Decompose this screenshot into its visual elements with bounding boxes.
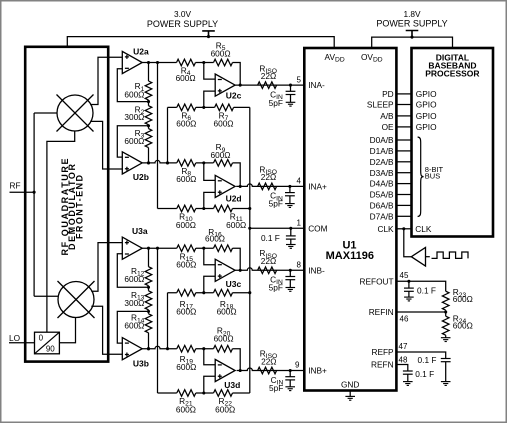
svg-text:0.1 F: 0.1 F xyxy=(261,233,280,243)
resistor R10 xyxy=(177,205,196,212)
junction U3c output xyxy=(239,269,242,272)
svg-text:OE: OE xyxy=(382,122,394,132)
junction CIN node pin8 xyxy=(289,269,292,272)
wire pin D7A/B xyxy=(396,215,411,217)
svg-text:600Ω: 600Ω xyxy=(213,119,233,129)
wire REFP cap to ground xyxy=(445,362,447,382)
junction R18-COM xyxy=(248,291,251,294)
capacitor CIN (INB+) xyxy=(285,377,295,380)
svg-text:INA-: INA- xyxy=(308,80,325,90)
svg-text:600Ω: 600Ω xyxy=(211,48,231,58)
svg-text:GPIO: GPIO xyxy=(416,89,437,99)
svg-text:CLK: CLK xyxy=(415,224,432,234)
svg-text:GPIO: GPIO xyxy=(416,100,437,110)
resistor R20 xyxy=(214,345,233,352)
op-amp U3c xyxy=(215,259,241,289)
node 3.0V rail xyxy=(207,35,210,38)
1.8V power supply terminal xyxy=(406,31,419,38)
svg-text:600Ω: 600Ω xyxy=(453,320,473,330)
ADC U1 MAX1196 block xyxy=(304,48,396,391)
wire LO 0-deg to mixer1 xyxy=(47,131,75,332)
junction U2d inverting node xyxy=(202,161,205,164)
wire U2b feedback xyxy=(117,126,148,157)
wire CIN pin5 xyxy=(290,85,292,102)
svg-text:U3a: U3a xyxy=(132,226,148,236)
svg-text:600Ω: 600Ω xyxy=(176,362,196,372)
resistor RISO (INB+) xyxy=(258,367,277,374)
resistor R4 xyxy=(177,59,196,66)
ground CIN pin4 xyxy=(285,204,295,208)
svg-text:A/B: A/B xyxy=(380,111,394,121)
junction RF node xyxy=(33,191,36,194)
junction U3a output / chain xyxy=(147,247,150,250)
wire pin D2A/B xyxy=(396,161,411,163)
svg-text:600Ω: 600Ω xyxy=(176,174,196,184)
svg-text:600Ω: 600Ω xyxy=(217,307,237,317)
capacitor CIN (INB-) xyxy=(285,277,295,280)
wire U2a output xyxy=(142,62,176,64)
wire 3.0V rail xyxy=(67,37,334,48)
svg-text:600Ω: 600Ω xyxy=(215,404,235,414)
svg-text:0.1 F: 0.1 F xyxy=(417,285,436,295)
resistor R7 xyxy=(215,104,234,111)
svg-text:600Ω: 600Ω xyxy=(210,150,230,160)
wire U3a feedback xyxy=(117,254,148,287)
resistor R24 xyxy=(442,316,449,335)
junction U3b output / chain xyxy=(147,347,150,350)
wire U3b output (hop) xyxy=(142,346,177,349)
svg-text:D1A/B: D1A/B xyxy=(370,146,394,156)
svg-text:600Ω: 600Ω xyxy=(176,73,196,83)
wire to U3c inverting input xyxy=(204,248,215,265)
svg-text:D0A/B: D0A/B xyxy=(370,135,394,145)
wire R12-R14 chain xyxy=(148,248,150,349)
svg-text:U2b: U2b xyxy=(133,172,149,182)
svg-text:600Ω: 600Ω xyxy=(176,307,196,317)
wire pin A/B xyxy=(396,115,411,117)
svg-text:U2d: U2d xyxy=(226,194,242,204)
wire CIN pin9 xyxy=(289,371,291,387)
junction R11-COM xyxy=(248,207,251,210)
wire U3a output to R21 xyxy=(157,248,159,393)
wire mixer2 to U3a+ xyxy=(91,243,122,292)
svg-text:600Ω: 600Ω xyxy=(124,136,144,146)
svg-text:600Ω: 600Ω xyxy=(124,90,144,100)
junction U2c non-inverting node xyxy=(202,106,205,109)
junction U2a output tap xyxy=(156,61,159,64)
svg-text:POWER SUPPLY: POWER SUPPLY xyxy=(147,19,218,29)
wire pin PD xyxy=(396,93,411,95)
ground CIN pin5 xyxy=(286,102,296,106)
wire mixer2 to U3b+ xyxy=(91,306,122,354)
wire RF vertical bus xyxy=(33,113,35,296)
resistor R14 xyxy=(145,314,152,333)
svg-text:600Ω: 600Ω xyxy=(214,333,234,343)
clock waveform symbol xyxy=(432,252,469,258)
wire pin SLEEP xyxy=(396,104,411,106)
resistor R9 xyxy=(214,160,233,167)
svg-text:90: 90 xyxy=(46,345,55,354)
junction R12-R13 xyxy=(147,286,150,289)
wire U3b feedback xyxy=(117,311,148,343)
resistor R23 xyxy=(442,291,449,310)
junction xyxy=(147,347,150,350)
svg-text:GPIO: GPIO xyxy=(416,122,437,132)
svg-text:1: 1 xyxy=(297,218,302,227)
svg-text:0.1 F: 0.1 F xyxy=(415,369,434,379)
wire LO input xyxy=(9,342,35,344)
junction REFIN node xyxy=(444,310,447,313)
ground REFP cap xyxy=(441,382,451,386)
resistor R12 xyxy=(145,267,152,286)
svg-text:600Ω: 600Ω xyxy=(205,234,225,244)
junction U3a output tap xyxy=(156,247,159,250)
svg-text:22Ω: 22Ω xyxy=(261,256,276,266)
wire REFP xyxy=(396,352,445,359)
svg-text:0: 0 xyxy=(39,334,44,343)
resistor R1 xyxy=(145,81,152,100)
junction U3d non-inverting node xyxy=(202,391,205,394)
svg-text:48: 48 xyxy=(399,355,408,364)
wire CIN pin4 xyxy=(289,186,291,203)
svg-text:600Ω: 600Ω xyxy=(124,321,144,331)
junction U2a output / chain xyxy=(147,61,150,64)
junction COM bus xyxy=(248,227,251,230)
capacitor 0.1F REFP xyxy=(441,359,451,362)
op-amp U2b xyxy=(122,152,149,182)
mixer (I-channel) xyxy=(57,95,94,132)
resistor R19 xyxy=(177,345,196,352)
wire to U3d inverting input xyxy=(204,349,215,365)
resistor R15 xyxy=(177,245,196,252)
wire REFIN xyxy=(396,311,445,313)
resistor R17 xyxy=(177,289,196,296)
ground CIN pin8 xyxy=(286,288,296,292)
op-amp U2c xyxy=(215,74,241,101)
wire COM to pin1 xyxy=(250,227,305,229)
wire LO 90-deg to mixer2 xyxy=(59,318,75,343)
resistor R22 xyxy=(214,390,233,397)
op-amp U3b xyxy=(122,338,149,369)
svg-text:PD: PD xyxy=(382,89,394,99)
svg-text:600Ω: 600Ω xyxy=(176,260,196,270)
wire pin D4A/B xyxy=(396,183,411,185)
wire REFOUT cap xyxy=(408,281,410,297)
wire R21-R22 row xyxy=(158,392,250,394)
wire REFN cap to ground xyxy=(407,374,409,381)
wire pin D5A/B xyxy=(396,194,411,196)
svg-text:8: 8 xyxy=(297,260,302,269)
wire to U2d non-inverting input xyxy=(204,192,215,208)
svg-text:22Ω: 22Ω xyxy=(261,172,276,182)
wire to U3d non-inverting input xyxy=(204,376,215,393)
svg-text:D6A/B: D6A/B xyxy=(370,201,394,211)
resistor R16 xyxy=(214,245,233,252)
op-amp U2a xyxy=(122,46,149,73)
wire clock source xyxy=(404,229,412,257)
svg-text:22Ω: 22Ω xyxy=(261,71,276,81)
wire REFOUT xyxy=(396,281,445,291)
svg-text:RF: RF xyxy=(10,181,21,191)
resistor R11 xyxy=(214,205,233,212)
wire R17-R18 row xyxy=(168,292,250,294)
svg-text:D2A/B: D2A/B xyxy=(370,157,394,167)
wire mixer1 to U2a+ xyxy=(90,57,122,104)
svg-text:U2a: U2a xyxy=(133,46,149,56)
resistor R2 xyxy=(145,106,152,125)
junction U3c non-inverting node xyxy=(202,291,205,294)
mixer (Q-channel) xyxy=(58,281,95,318)
wire R6-R7 row xyxy=(168,106,250,108)
junction CIN node pin5 xyxy=(289,84,292,87)
svg-text:4: 4 xyxy=(297,176,302,185)
wire COM cap xyxy=(290,228,292,244)
svg-text:U2c: U2c xyxy=(226,91,242,101)
RF quadrature demodulator front-end block xyxy=(25,47,108,362)
wire pin D1A/B xyxy=(396,150,411,152)
svg-text:SLEEP: SLEEP xyxy=(367,100,394,110)
wire pin OE xyxy=(396,126,411,128)
junction CLK xyxy=(402,227,405,230)
capacitor 0.1F COM xyxy=(286,236,296,239)
resistor R18 xyxy=(214,289,233,296)
junction xyxy=(147,161,150,164)
resistor R8 xyxy=(177,160,196,167)
svg-text:D4A/B: D4A/B xyxy=(370,179,394,189)
junction R2-R3 xyxy=(147,124,150,127)
wire pin D3A/B xyxy=(396,172,411,174)
svg-text:5: 5 xyxy=(297,75,302,84)
svg-text:U3d: U3d xyxy=(224,380,240,390)
wire R4-R5 xyxy=(196,62,214,64)
junction xyxy=(166,161,169,164)
svg-text:MAX1196: MAX1196 xyxy=(326,250,374,262)
svg-text:5pF: 5pF xyxy=(269,383,283,393)
junction U3c inverting node xyxy=(202,247,205,250)
svg-text:300Ω: 300Ω xyxy=(124,112,144,122)
junction U2d non-inverting node xyxy=(202,207,205,210)
wire R1-R3 chain xyxy=(148,63,150,163)
svg-text:3.0V: 3.0V xyxy=(174,9,192,19)
ground R24 xyxy=(441,338,451,342)
wire U2c output to INA- xyxy=(235,84,304,86)
wire pin CLK xyxy=(396,228,411,230)
wire R5 to U2c output xyxy=(233,63,241,86)
svg-text:5pF: 5pF xyxy=(269,98,283,108)
svg-text:600Ω: 600Ω xyxy=(176,404,196,414)
resistor R6 xyxy=(177,104,196,111)
svg-text:D7A/B: D7A/B xyxy=(370,211,394,221)
resistor RISO (INB-) xyxy=(258,267,277,274)
ground REFN cap xyxy=(403,382,413,386)
svg-text:5pF: 5pF xyxy=(269,282,283,292)
3.0V power supply terminal xyxy=(202,31,215,37)
svg-text:9: 9 xyxy=(295,361,300,370)
svg-text:INB+: INB+ xyxy=(308,366,327,376)
svg-text:46: 46 xyxy=(400,314,409,323)
wire U3c output to INB- (hop) xyxy=(235,268,304,271)
junction xyxy=(166,161,169,164)
clock buffer xyxy=(411,248,425,267)
wire RF to mixer2 xyxy=(34,295,58,297)
svg-text:600Ω: 600Ω xyxy=(124,274,144,284)
digital baseband processor block xyxy=(412,48,494,237)
svg-text:600Ω: 600Ω xyxy=(453,294,473,304)
wire U3a output xyxy=(142,247,177,249)
svg-text:300Ω: 300Ω xyxy=(124,298,144,308)
junction CIN node pin4 xyxy=(288,185,291,188)
junction COM cap node xyxy=(289,227,292,230)
resistor R21 xyxy=(177,390,196,397)
capacitor 0.1F REFOUT xyxy=(404,288,414,291)
svg-text:POWER SUPPLY: POWER SUPPLY xyxy=(376,18,447,28)
svg-text:0.1 F: 0.1 F xyxy=(418,355,437,365)
resistor RISO (INA+) xyxy=(258,183,277,190)
svg-text:22Ω: 22Ω xyxy=(261,356,276,366)
wire R17 to U3b output xyxy=(167,293,169,349)
op-amp U3a xyxy=(122,226,148,259)
node 1.8V rail xyxy=(410,36,413,39)
wire COM bus vertical xyxy=(249,107,251,393)
wire R6 to U2b output xyxy=(167,107,169,162)
resistor R5 xyxy=(214,59,233,66)
wire U2a output to R10 xyxy=(157,63,159,209)
svg-text:D3A/B: D3A/B xyxy=(370,168,394,178)
junction U2c output xyxy=(239,84,242,87)
svg-text:D5A/B: D5A/B xyxy=(370,190,394,200)
svg-text:REFOUT: REFOUT xyxy=(359,276,393,286)
wire REFN xyxy=(396,365,407,372)
junction U3d output xyxy=(239,369,242,372)
wire R15-R16 xyxy=(196,247,214,249)
op-amp U2d xyxy=(215,175,241,203)
wire R19-R20 xyxy=(196,348,214,350)
8-bit bus brace xyxy=(418,137,424,217)
wire U3d output to INB+ (hop) xyxy=(237,368,305,371)
resistor R13 xyxy=(145,291,152,310)
wire pin D6A/B xyxy=(396,204,411,206)
wire pin D0A/B xyxy=(396,139,411,141)
svg-text:600Ω: 600Ω xyxy=(176,220,196,230)
wire R10-R11 row xyxy=(158,208,250,210)
wire R23-R24 xyxy=(445,310,447,316)
capacitor CIN (INA-) xyxy=(286,91,296,94)
svg-text:FRONT-END: FRONT-END xyxy=(74,175,84,240)
svg-text:U3b: U3b xyxy=(133,359,149,369)
wire U2d output to INA+ (hop) xyxy=(236,184,304,187)
wire R16 to U3c output xyxy=(233,248,241,270)
wire GND pin xyxy=(349,391,351,397)
wire U2b output (hop) xyxy=(142,160,177,163)
wire R8-R9 xyxy=(196,162,214,164)
svg-text:GND: GND xyxy=(341,379,359,389)
wire to U2d inverting input xyxy=(204,163,215,181)
svg-text:U3c: U3c xyxy=(226,279,242,289)
op-amp U3d xyxy=(215,359,240,390)
junction U2c inverting node xyxy=(202,61,205,64)
svg-text:INA+: INA+ xyxy=(308,181,327,191)
wire 1.8V rail xyxy=(372,37,453,48)
0/90 phase shifter xyxy=(35,332,60,354)
junction U2d output xyxy=(239,185,242,188)
svg-text:INB-: INB- xyxy=(308,265,325,275)
resistor R3 xyxy=(145,129,152,148)
junction U2b output / chain xyxy=(147,161,150,164)
capacitor 0.1F REFN xyxy=(403,371,413,374)
junction R1-R2 xyxy=(147,100,150,103)
wire RF input xyxy=(10,191,35,193)
ground REFOUT cap xyxy=(404,297,414,301)
svg-text:CLK: CLK xyxy=(377,224,394,234)
svg-text:LO: LO xyxy=(9,333,21,343)
wire mixer1 to U2b+ xyxy=(90,121,122,169)
svg-text:600Ω: 600Ω xyxy=(226,220,246,230)
svg-text:5pF: 5pF xyxy=(269,198,283,208)
wire R24 to ground xyxy=(445,335,447,338)
wire CIN pin8 xyxy=(289,270,291,287)
junction xyxy=(166,347,169,350)
ground CIN pin9 xyxy=(285,387,295,391)
wire to U2c inverting input xyxy=(204,63,215,80)
svg-text:47: 47 xyxy=(399,342,408,351)
svg-text:COM: COM xyxy=(308,223,327,233)
ground GND pin xyxy=(345,396,355,400)
svg-text:GPIO: GPIO xyxy=(416,111,437,121)
wire to U2c non-inverting input xyxy=(204,91,215,107)
ground COM cap xyxy=(286,245,296,249)
wire to U3c non-inverting input xyxy=(204,276,215,292)
svg-text:REFP: REFP xyxy=(371,347,394,357)
svg-text:BUS: BUS xyxy=(425,172,440,181)
svg-text:REFIN: REFIN xyxy=(369,307,394,317)
junction R13-R14 xyxy=(147,310,150,313)
wire R20 to U3d output xyxy=(233,349,241,371)
wire R9 to U2d output xyxy=(233,163,241,187)
svg-text:PROCESSOR: PROCESSOR xyxy=(425,69,479,79)
wire U2a feedback xyxy=(117,69,148,102)
capacitor CIN (INA+) xyxy=(285,193,295,196)
wire clock buffer input xyxy=(426,256,430,258)
svg-text:REFN: REFN xyxy=(371,360,394,370)
resistor RISO (INA-) xyxy=(258,82,277,89)
junction CIN node pin9 xyxy=(289,369,292,372)
svg-text:45: 45 xyxy=(400,271,409,280)
svg-text:600Ω: 600Ω xyxy=(176,119,196,129)
junction U3d inverting node xyxy=(202,347,205,350)
wire RF to mixer1 xyxy=(34,112,57,114)
junction REFOUT cap node xyxy=(407,280,410,283)
